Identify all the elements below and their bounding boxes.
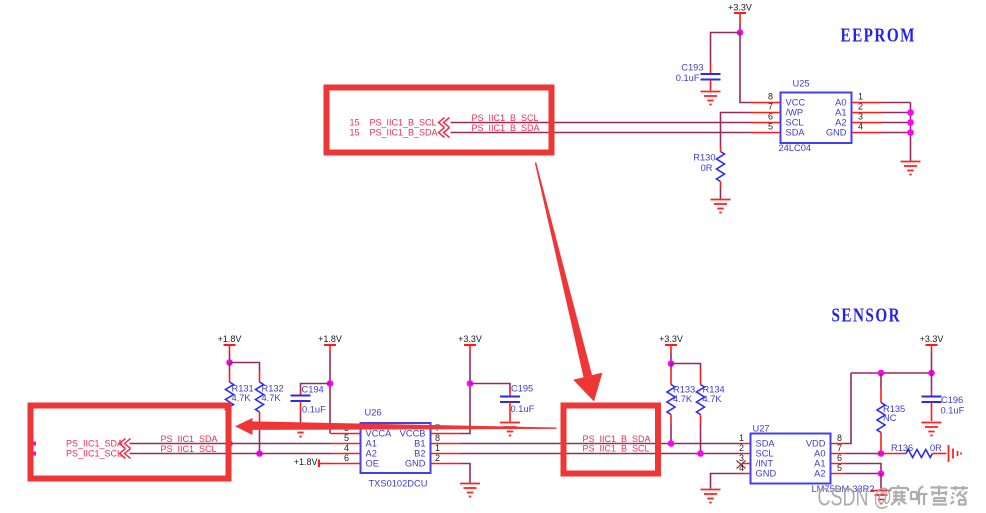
svg-text:U25: U25 (793, 79, 810, 89)
pin 7 VCCB stub (431, 433, 461, 435)
node R132/SCL junction (256, 450, 263, 457)
svg-text:PS_IIC1_SDA: PS_IIC1_SDA (66, 439, 123, 449)
svg-text:PS_IIC1_B_SCL: PS_IIC1_B_SCL (472, 113, 539, 123)
port text PS_IIC1_SCL (66, 449, 131, 459)
svg-text:TXS0102DCU: TXS0102DCU (369, 479, 428, 489)
ground below C194 (291, 424, 311, 437)
svg-text:/INT: /INT (756, 459, 774, 469)
svg-text:SCL: SCL (756, 449, 774, 459)
svg-text:NC: NC (883, 413, 897, 423)
pin 4 GND stub (852, 132, 882, 134)
svg-text:PS_IIC1_SDA: PS_IIC1_SDA (161, 434, 218, 444)
node C195 junction (467, 380, 474, 387)
svg-text:4.7K: 4.7K (262, 393, 282, 403)
svg-text:VCCB: VCCB (400, 429, 426, 439)
svg-text:A1: A1 (835, 108, 846, 118)
svg-text:C196: C196 (941, 395, 963, 405)
capacitor C195 (500, 384, 535, 422)
wire +3.3V to rail (931, 353, 933, 373)
pin 6 SCL stub (751, 122, 781, 124)
annotation arrow horizontal (235, 418, 557, 435)
ground right of U25 (901, 162, 921, 175)
ground below C195 (500, 423, 520, 436)
node +3.3V/C196 junction (928, 370, 935, 377)
wire A0 to vertical bus (882, 102, 911, 104)
pin 4 GND stub (743, 473, 751, 475)
svg-text:B2: B2 (414, 449, 425, 459)
svg-text:7: 7 (768, 102, 773, 112)
svg-text:4.7K: 4.7K (232, 393, 252, 403)
svg-text:+1.8V: +1.8V (218, 334, 242, 344)
svg-text:GND: GND (405, 459, 426, 469)
svg-text:A0: A0 (814, 449, 825, 459)
pin 2 SCL stub (743, 453, 751, 455)
svg-text:VCC: VCC (786, 98, 806, 108)
svg-text:SDA: SDA (756, 439, 776, 449)
wire vertical bus to ground (910, 103, 912, 162)
wire junction to C194 (301, 384, 331, 390)
svg-text:0.1uF: 0.1uF (302, 405, 326, 415)
ground below U26 (460, 484, 480, 497)
svg-text:VDD: VDD (806, 439, 826, 449)
pin 6 OE stub (331, 463, 361, 465)
svg-text:SCL: SCL (786, 118, 804, 128)
wire A1 to A2 bus (846, 464, 882, 474)
svg-text:PS_IIC1_B_SDA: PS_IIC1_B_SDA (583, 434, 651, 444)
svg-text:OE: OE (366, 459, 379, 469)
svg-text:0.1uF: 0.1uF (676, 73, 700, 83)
wire junction to R132 top (230, 363, 260, 371)
pin 5 A1 stub (331, 443, 361, 445)
wire R132 to SCL row (259, 424, 261, 454)
svg-text:EEPROM: EEPROM (841, 23, 916, 46)
svg-text:R136: R136 (891, 443, 913, 453)
wire GND U26 to ground (461, 464, 471, 483)
svg-text:GND: GND (826, 128, 847, 138)
node R135/A0 junction (878, 450, 885, 457)
ground rotated (right of R136) (949, 445, 962, 462)
watermark hanzi ting (911, 486, 928, 505)
node A2 junction (907, 119, 914, 126)
IC U27 LM75 (751, 424, 875, 495)
svg-text:B1: B1 (414, 439, 425, 449)
wire R133 to SDA row (670, 425, 672, 444)
resistor R130 0R (693, 147, 724, 188)
svg-text:PS_IIC1_B_SCL: PS_IIC1_B_SCL (370, 118, 437, 128)
node A2 junction (878, 470, 885, 477)
svg-text:2: 2 (435, 453, 440, 463)
capacitor C194 (291, 385, 327, 415)
pin 8 VCC stub (751, 102, 781, 104)
svg-text:7: 7 (837, 443, 842, 453)
watermark hanzi xue (931, 486, 948, 505)
wire SCL right row (B2 to U27) (461, 453, 743, 455)
svg-text:R130: R130 (693, 153, 715, 163)
svg-text:PS_IIC1_B_SCL: PS_IIC1_B_SCL (583, 444, 650, 454)
svg-text:4: 4 (858, 122, 863, 132)
svg-text:6: 6 (837, 453, 842, 463)
svg-text:A1: A1 (366, 439, 377, 449)
no-connect X on /INT (737, 461, 746, 469)
svg-text:A2: A2 (835, 118, 846, 128)
wire junction to C193 branch (711, 33, 741, 65)
wire junction down to pin 8 (740, 33, 751, 103)
svg-text:+3.3V: +3.3V (728, 3, 752, 13)
svg-text:5: 5 (344, 433, 349, 443)
svg-text:5: 5 (768, 122, 773, 132)
pin 5 A2 stub (831, 473, 846, 475)
wire SDA right row (B1 to U27) (461, 443, 743, 445)
svg-text:0.1uF: 0.1uF (511, 404, 535, 414)
node junction VCC (737, 29, 744, 36)
wire A2 to bus (846, 473, 882, 475)
node R134/SCL junction (697, 450, 704, 457)
svg-text:6: 6 (344, 453, 349, 463)
svg-text:GND: GND (756, 469, 777, 479)
annotation box top (327, 88, 552, 153)
IC U26 TXS0102DCU (361, 408, 431, 489)
pin 3 A2 stub (852, 122, 882, 124)
power +3.3V (sensor right) (920, 334, 944, 353)
node R135 rail junction (878, 370, 885, 377)
pin 7 A0 stub (831, 453, 846, 455)
svg-text:SENSOR: SENSOR (832, 303, 902, 326)
watermark CSDN (818, 483, 969, 512)
capacitor C193 (676, 63, 721, 91)
node junction R131/R132 top (226, 359, 233, 366)
svg-text:2: 2 (739, 443, 744, 453)
svg-text:C195: C195 (511, 384, 533, 394)
wire bus to ground (880, 474, 882, 490)
pin 8 B1 stub (431, 443, 461, 445)
svg-text:A0: A0 (835, 98, 846, 108)
annotation box middle (564, 406, 659, 474)
svg-text:6: 6 (768, 112, 773, 122)
wire R131 to SDA row (229, 424, 231, 444)
wire VCCB up to +3.3V (461, 353, 471, 434)
svg-text:PS_IIC1_SCL: PS_IIC1_SCL (161, 444, 217, 454)
ground below U27 (701, 490, 721, 503)
wire SCL long (top) (451, 122, 751, 124)
svg-text:R133: R133 (673, 385, 695, 395)
svg-text:4: 4 (739, 463, 744, 473)
wire U27 GND to ground (711, 474, 743, 489)
wire R130 to ground (720, 188, 722, 200)
ground below C193 (701, 92, 721, 105)
pin 4 A2 stub (331, 453, 361, 455)
svg-text:5: 5 (837, 463, 842, 473)
svg-text:8: 8 (768, 92, 773, 102)
power +3.3V (EEPROM) (728, 3, 752, 24)
svg-text:8: 8 (435, 433, 440, 443)
svg-text:4.7K: 4.7K (673, 394, 693, 404)
pin 1 B2 stub (431, 453, 461, 455)
wire /WP from pin7 to R130 (721, 113, 751, 147)
svg-text:A2: A2 (814, 469, 825, 479)
svg-text:+3.3V: +3.3V (920, 334, 944, 344)
power +1.8V (R131) (218, 334, 242, 353)
svg-text:VCCA: VCCA (366, 429, 393, 439)
wire +3.3V rail (851, 372, 932, 374)
svg-text:A1: A1 (814, 459, 825, 469)
svg-text:U27: U27 (753, 424, 770, 434)
wire +1.8V to junction (229, 353, 231, 363)
svg-text:4: 4 (344, 443, 349, 453)
wire A0 to junction (846, 453, 882, 455)
pin 3 /INT stub (743, 463, 751, 465)
svg-text:15: 15 (350, 128, 360, 138)
power +1.8V (VCCA) (318, 334, 342, 353)
svg-text:C193: C193 (681, 63, 703, 73)
svg-text:U26: U26 (365, 408, 382, 418)
svg-text:1: 1 (739, 433, 744, 443)
pin 7 /WP stub (751, 112, 781, 114)
capacitor C196 (922, 373, 965, 421)
svg-text:4.7K: 4.7K (703, 394, 723, 404)
resistor R135 NC (877, 373, 905, 454)
ground below R130 (711, 200, 731, 213)
svg-text:R132: R132 (262, 384, 284, 394)
svg-text:1: 1 (435, 443, 440, 453)
node clipped port SDA (34, 442, 37, 446)
pin 8 VDD stub (831, 443, 846, 445)
node clipped port SCL (34, 452, 37, 456)
ground below A2 bus (871, 491, 891, 504)
ground below C196 (922, 423, 942, 436)
svg-text:3: 3 (858, 112, 863, 122)
svg-text:/WP: /WP (786, 108, 804, 118)
resistor R133 4.7K (667, 364, 695, 425)
wire +3.3V to junction (670, 353, 672, 364)
svg-text:CSDN @: CSDN @ (818, 483, 892, 512)
pin 6 A1 stub (831, 463, 846, 465)
svg-text:0R: 0R (701, 163, 713, 173)
power +3.3V (R133) (659, 334, 683, 353)
svg-text:A2: A2 (366, 449, 377, 459)
resistor R132 4.7K (256, 371, 284, 424)
svg-text:+3.3V: +3.3V (458, 334, 482, 344)
node R131/SDA junction (226, 440, 233, 447)
pin 1 A0 stub (852, 102, 882, 104)
svg-text:PS_IIC1_SCL: PS_IIC1_SCL (66, 449, 122, 459)
annotation box bottom-left (31, 406, 229, 479)
power +1.8V (OE) (294, 457, 331, 467)
svg-text:C194: C194 (302, 385, 324, 395)
svg-text:24LC04: 24LC04 (779, 143, 812, 153)
svg-text:PS_IIC1_B_SDA: PS_IIC1_B_SDA (370, 128, 438, 138)
svg-text:0R: 0R (930, 443, 942, 453)
wire SCL left row (130, 453, 331, 455)
IC U25 24LC04 (779, 79, 852, 154)
pin 3 VCCA stub (331, 433, 361, 435)
node GND junction (907, 129, 914, 136)
svg-text:+3.3V: +3.3V (659, 334, 683, 344)
wire C194 to ground (300, 413, 302, 424)
resistor R134 4.7K (697, 370, 725, 425)
svg-text:3: 3 (739, 453, 744, 463)
wire junction to C195 (470, 384, 510, 391)
svg-text:2: 2 (858, 102, 863, 112)
wire VDD up to rail (846, 373, 852, 444)
svg-text:1: 1 (858, 92, 863, 102)
node C194 junction (327, 380, 334, 387)
port 15 PS_IIC1_B_SDA (350, 128, 450, 138)
watermark hanzi han (891, 485, 909, 506)
wire +3.3V down to junction (739, 24, 741, 33)
wire +1.8V down to VCCA (329, 353, 331, 434)
wire junction to R134 top (671, 364, 701, 370)
svg-text:R131: R131 (232, 384, 254, 394)
watermark hanzi luo (951, 486, 969, 505)
wire R134 to SCL row (700, 425, 702, 454)
svg-text:8: 8 (837, 433, 842, 443)
power +3.3V (VCCB) (458, 334, 482, 353)
svg-text:R134: R134 (703, 385, 725, 395)
svg-text:+1.8V: +1.8V (294, 457, 318, 467)
wire A1 to vertical bus (882, 112, 911, 114)
svg-text:SDA: SDA (786, 128, 806, 138)
node A1 junction (907, 109, 914, 116)
port text PS_IIC1_SDA (66, 439, 131, 449)
pin 5 SDA stub (751, 132, 781, 134)
svg-text:15: 15 (350, 118, 360, 128)
wire SDA left row (130, 443, 331, 445)
annotation arrow diagonal (535, 162, 603, 401)
node junction R133/R134 top (668, 360, 675, 367)
wire A2 to vertical bus (882, 122, 911, 124)
pin 1 SDA stub (743, 443, 751, 445)
pin 2 GND stub (431, 463, 461, 465)
pin 2 A1 stub (852, 112, 882, 114)
wire GND to vertical bus (882, 132, 911, 134)
svg-text:0.1uF: 0.1uF (941, 406, 965, 416)
svg-text:+1.8V: +1.8V (318, 334, 342, 344)
node R133/SDA junction (668, 440, 675, 447)
resistor R136 0R (881, 443, 947, 458)
resistor R131 4.7K (226, 363, 254, 424)
top annotation texts: port 15 PS_IIC1_B_SCL (350, 118, 450, 128)
svg-text:PS_IIC1_B_SDA: PS_IIC1_B_SDA (472, 123, 540, 133)
wire SDA long (top) (451, 132, 751, 134)
